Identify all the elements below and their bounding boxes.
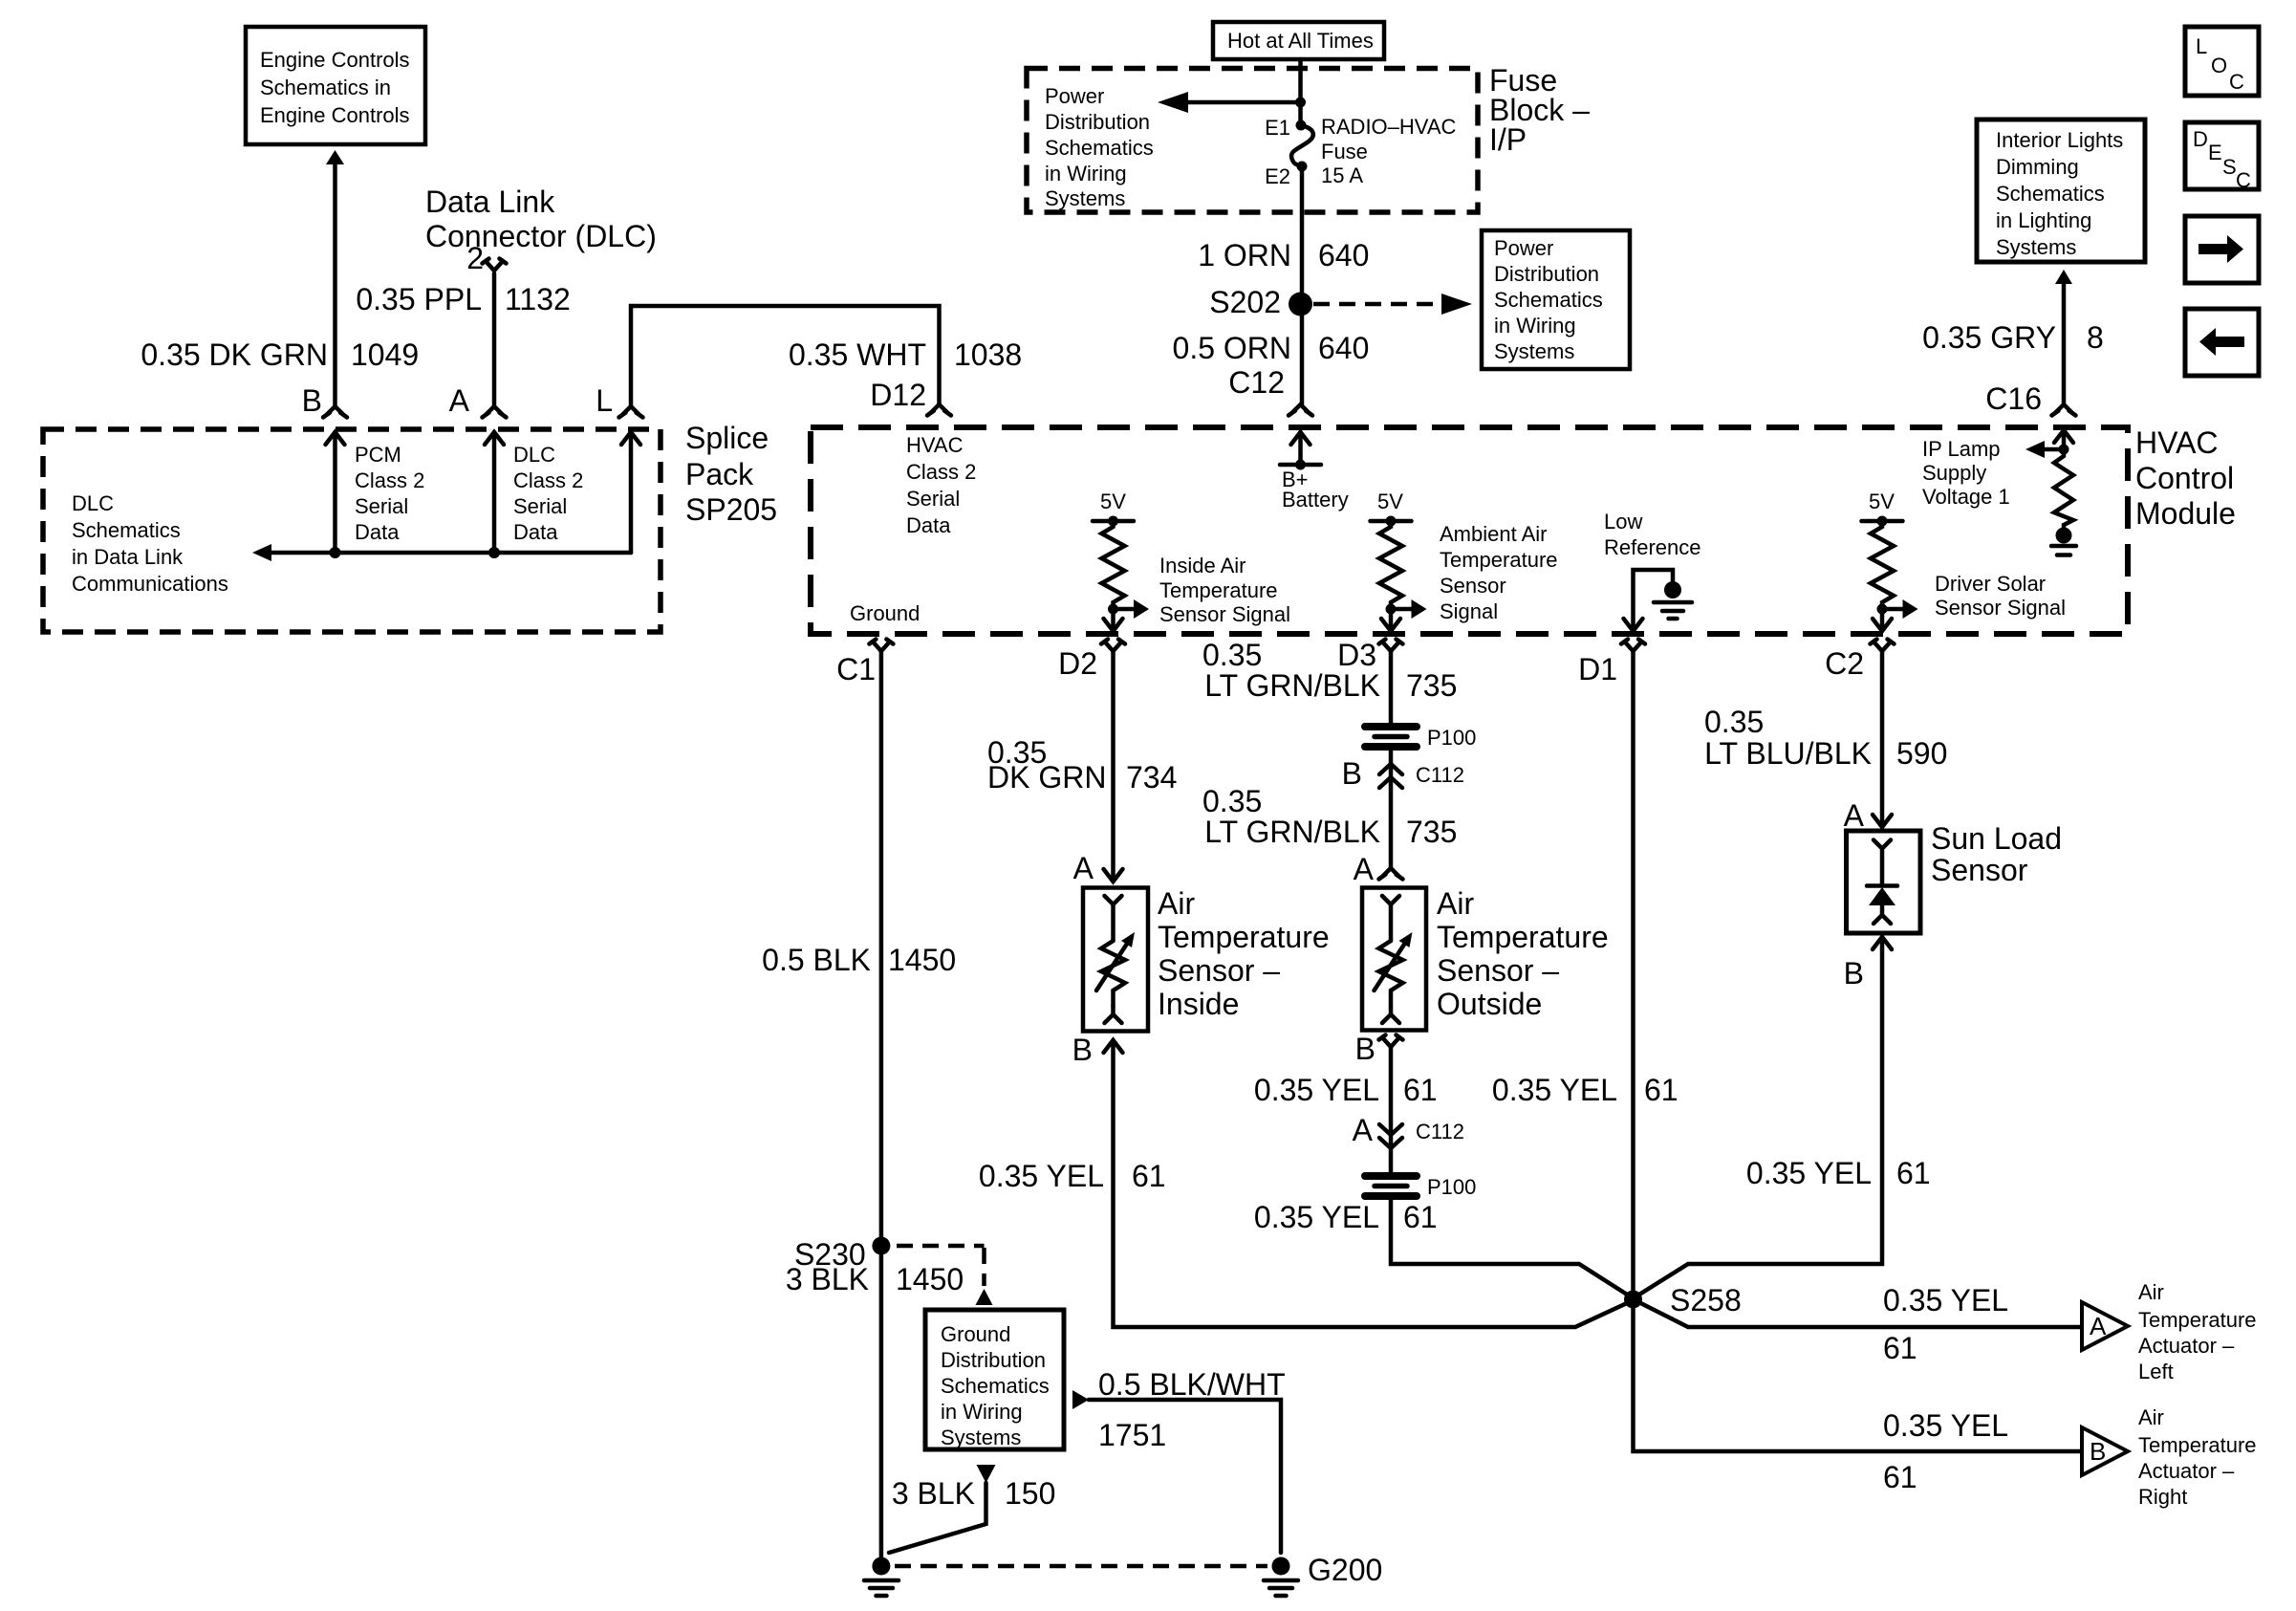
- wire 0.35 GRY 8: [2062, 284, 2067, 404]
- internal wire (outside sensor): [1389, 904, 1394, 941]
- grommet P100 (upper): [1365, 726, 1476, 750]
- svg-text:C: C: [2229, 70, 2244, 94]
- 5V supply for driver solar sensor: [1862, 490, 1903, 527]
- wire 0.35 YEL 61 from sun load to S258: [1634, 937, 1883, 1298]
- svg-text:A: A: [1073, 851, 1094, 885]
- wire 0.35 YEL 61 below outside sensor: [1389, 1047, 1394, 1175]
- svg-text:C112: C112: [1416, 763, 1464, 787]
- box: Hot at All Times: [1213, 22, 1384, 59]
- wire B to bus: [333, 432, 337, 553]
- pin A of sun load sensor: [1844, 798, 1892, 833]
- svg-text:Distribution: Distribution: [941, 1348, 1046, 1372]
- svg-text:Sensor: Sensor: [1440, 574, 1506, 598]
- arrow up inside splice pack at L: [621, 432, 640, 445]
- photodiode (sun load): [1867, 886, 1897, 916]
- internal wire (inside sensor): [1111, 904, 1116, 941]
- svg-text:1132: 1132: [505, 282, 571, 316]
- wire 0.35 WHT 1038 from L to D12: [631, 306, 940, 406]
- svg-text:Class 2: Class 2: [906, 460, 976, 484]
- svg-text:Hot at All Times: Hot at All Times: [1227, 29, 1374, 53]
- pin D1 of HVAC control module: [1578, 640, 1645, 687]
- label Air Temperature Actuator - Right: [2138, 1405, 2257, 1509]
- svg-text:B: B: [1844, 956, 1864, 991]
- svg-text:61: 61: [1883, 1331, 1917, 1365]
- svg-text:5V: 5V: [1869, 490, 1895, 513]
- junction node on feed wire: [1295, 98, 1306, 108]
- svg-text:in Wiring: in Wiring: [1494, 314, 1576, 337]
- svg-text:150: 150: [1005, 1476, 1055, 1511]
- svg-text:Reference: Reference: [1604, 535, 1701, 559]
- svg-text:Class 2: Class 2: [513, 468, 583, 492]
- label Air Temperature Actuator - Left: [2138, 1280, 2257, 1383]
- dashed ground bus to G200: [895, 1564, 1267, 1569]
- svg-text:Sensor –: Sensor –: [1437, 953, 1559, 988]
- svg-text:A: A: [1844, 798, 1865, 833]
- arrowhead at start of 0.5 BLK/WHT wire: [1072, 1390, 1089, 1409]
- svg-text:D3: D3: [1337, 638, 1376, 672]
- wire 3 BLK 1450 from S230 to ground: [879, 1254, 884, 1557]
- svg-text:0.35 PPL: 0.35 PPL: [356, 282, 482, 316]
- svg-text:Power: Power: [1045, 84, 1104, 108]
- arrow down at D1 inside module: [1624, 619, 1643, 631]
- label 0.35 LT GRN/BLK 735 (upper): [1202, 638, 1457, 703]
- svg-text:15 A: 15 A: [1321, 163, 1363, 187]
- connector C112 pin B: [1342, 756, 1464, 791]
- svg-text:L: L: [596, 383, 613, 418]
- pin C2 of HVAC control module: [1825, 640, 1894, 682]
- svg-text:1450: 1450: [896, 1262, 964, 1296]
- arrow down below Ground Distribution box: [977, 1465, 996, 1483]
- svg-text:Temperature: Temperature: [1437, 920, 1609, 954]
- bus wire inside splice pack: [270, 551, 631, 555]
- variable resistor (inside sensor): [1096, 932, 1135, 1006]
- svg-text:Distribution: Distribution: [1045, 110, 1150, 134]
- label 0.35 LT GRN/BLK 735 (lower): [1202, 784, 1457, 849]
- svg-text:B: B: [2090, 1437, 2106, 1466]
- right arrow legend box: [2185, 216, 2259, 283]
- variable resistor (outside sensor): [1375, 932, 1413, 1006]
- internal pin bottom (sun load): [1874, 915, 1891, 924]
- wire 0.5 BLK/WHT 1751: [1089, 1400, 1281, 1553]
- wire 0.35 PPL 1132: [492, 273, 497, 406]
- label 0.35 PPL 1132: [356, 282, 570, 316]
- svg-text:Outside: Outside: [1437, 987, 1542, 1021]
- internal ground at low reference: [1654, 581, 1692, 619]
- resistor ambient air temp pull-up: [1379, 521, 1402, 609]
- internal pin bottom (outside sensor): [1382, 1006, 1399, 1023]
- svg-text:Ground: Ground: [941, 1322, 1010, 1346]
- svg-text:Connector (DLC): Connector (DLC): [425, 219, 657, 253]
- ground symbol left: [864, 1557, 899, 1597]
- svg-text:P100: P100: [1427, 726, 1476, 750]
- svg-text:2: 2: [466, 241, 484, 275]
- grommet P100 (lower): [1365, 1175, 1476, 1199]
- wire A to bus: [492, 432, 497, 553]
- label HVAC Class 2 Serial Data: [906, 433, 976, 537]
- pin E1: [1265, 116, 1306, 140]
- label 1 ORN 640: [1198, 238, 1369, 272]
- svg-text:1450: 1450: [888, 943, 956, 977]
- svg-text:A: A: [1354, 852, 1375, 886]
- svg-text:Battery: Battery: [1282, 488, 1349, 512]
- svg-text:B: B: [1072, 1033, 1093, 1067]
- internal ground at IP lamp resistor: [2051, 528, 2076, 555]
- box: air temperature sensor - outside: [1362, 888, 1426, 1031]
- svg-text:G200: G200: [1308, 1553, 1382, 1587]
- label 0.35 YEL 61 (outside sensor B): [1254, 1073, 1438, 1107]
- arrowhead left on bus: [252, 544, 271, 561]
- svg-text:Module: Module: [2135, 496, 2236, 531]
- svg-text:Engine Controls: Engine Controls: [260, 48, 410, 72]
- wire 0.35 DK GRN 1049: [333, 164, 337, 406]
- splice S202: [1209, 285, 1312, 319]
- wire below grommet: [1389, 750, 1394, 868]
- svg-text:Data: Data: [355, 520, 400, 544]
- wire from Hot at All Times to fuse: [1298, 59, 1303, 125]
- pin A of splice pack: [449, 383, 507, 418]
- svg-text:0.35 DK GRN: 0.35 DK GRN: [141, 337, 328, 372]
- label 0.35 WHT 1038: [789, 337, 1022, 372]
- svg-text:1 ORN: 1 ORN: [1198, 238, 1291, 272]
- pin 2 of DLC: [466, 241, 506, 275]
- connector triangle B to air temperature actuator right: [2082, 1427, 2128, 1475]
- wire 0.35 DK GRN 734: [1111, 651, 1116, 882]
- svg-text:Distribution: Distribution: [1494, 262, 1599, 286]
- svg-text:Sensor: Sensor: [1931, 853, 2028, 887]
- svg-text:0.35 GRY: 0.35 GRY: [1922, 320, 2056, 355]
- wire 0.35 YEL 61 from D1 through S258 to actuator B: [1634, 651, 2083, 1451]
- wire C12 to B+ bar: [1298, 432, 1303, 465]
- svg-text:Power: Power: [1494, 236, 1553, 260]
- svg-text:Actuator –: Actuator –: [2138, 1334, 2235, 1358]
- svg-text:Systems: Systems: [1996, 235, 2076, 259]
- svg-text:Temperature: Temperature: [1159, 578, 1278, 602]
- svg-text:5V: 5V: [1377, 490, 1403, 513]
- box: Interior Lights Dimming Schematics in Lighting Systems: [1977, 120, 2145, 262]
- HVAC control module dashed box: [811, 427, 2128, 634]
- svg-text:LT BLU/BLK: LT BLU/BLK: [1704, 736, 1872, 771]
- pin C1 of HVAC control module: [836, 640, 893, 687]
- svg-text:A: A: [449, 383, 470, 418]
- svg-text:in Wiring: in Wiring: [941, 1400, 1023, 1424]
- svg-text:S202: S202: [1209, 285, 1281, 319]
- branch arrow Ambient Air Temperature Sensor Signal: [1391, 599, 1427, 619]
- ground G200: [1264, 1553, 1382, 1596]
- svg-text:Right: Right: [2138, 1485, 2187, 1509]
- svg-text:Temperature: Temperature: [2138, 1308, 2257, 1332]
- svg-text:734: 734: [1126, 760, 1177, 795]
- fuse RADIO-HVAC 15 A: [1291, 125, 1313, 166]
- svg-text:Inside: Inside: [1158, 987, 1239, 1021]
- svg-text:SP205: SP205: [685, 492, 777, 527]
- svg-text:0.35 YEL: 0.35 YEL: [979, 1159, 1104, 1193]
- svg-text:Sensor Signal: Sensor Signal: [1935, 596, 2066, 620]
- svg-text:C16: C16: [1985, 381, 2042, 416]
- svg-text:Air: Air: [2138, 1280, 2164, 1304]
- svg-text:Class 2: Class 2: [355, 468, 424, 492]
- svg-text:0.35: 0.35: [1202, 638, 1262, 672]
- svg-text:D1: D1: [1578, 652, 1617, 686]
- svg-text:B: B: [1342, 756, 1362, 791]
- svg-text:in Lighting: in Lighting: [1996, 208, 2091, 232]
- pin C12 of HVAC control module: [1228, 365, 1312, 416]
- label Splice Pack SP205: [685, 421, 777, 527]
- box: air temperature sensor - inside: [1083, 888, 1148, 1032]
- branch arrow to IP Lamp label: [2025, 441, 2064, 458]
- pin E2: [1265, 162, 1307, 189]
- svg-text:0.35 YEL: 0.35 YEL: [1746, 1156, 1872, 1190]
- connector triangle A to air temperature actuator left: [2082, 1302, 2128, 1350]
- label Driver Solar Sensor Signal: [1935, 572, 2066, 620]
- node on C16 wire: [2059, 445, 2069, 455]
- DESC legend box: [2185, 122, 2259, 192]
- arrow up from Ground Distribution box: [976, 1289, 993, 1305]
- box: Power Distribution Schematics in Wiring Systems: [1482, 230, 1630, 369]
- svg-text:Driver Solar: Driver Solar: [1935, 572, 2046, 596]
- label 0.35 YEL 61 (inside sensor): [979, 1159, 1166, 1193]
- box: Engine Controls reference: [246, 27, 425, 144]
- svg-text:0.35 YEL: 0.35 YEL: [1883, 1283, 2008, 1317]
- wire 0.35 YEL 61 from inside sensor to S258: [1114, 1040, 1634, 1327]
- resistor inside air temp pull-up: [1102, 521, 1125, 609]
- label 0.35 YEL 61 (actuator B): [1883, 1408, 2008, 1494]
- 5V supply for ambient air temp sensor: [1371, 490, 1412, 527]
- svg-text:0.35 YEL: 0.35 YEL: [1254, 1200, 1379, 1234]
- pin C16 of HVAC control module: [1985, 381, 2075, 416]
- svg-text:Ambient Air: Ambient Air: [1440, 522, 1548, 546]
- svg-text:0.35 YEL: 0.35 YEL: [1883, 1408, 2008, 1443]
- svg-text:590: 590: [1896, 736, 1947, 771]
- label DLC Class 2 Serial Data: [513, 443, 583, 544]
- wire to D2 pin: [1111, 609, 1116, 631]
- pin B of outside air temp sensor: [1355, 1032, 1403, 1066]
- branch arrow Inside Air Temperature Sensor Signal: [1114, 599, 1150, 619]
- svg-text:Dimming: Dimming: [1996, 155, 2079, 179]
- pin A of inside air temp sensor: [1073, 851, 1123, 885]
- svg-text:B: B: [302, 383, 322, 418]
- svg-text:O: O: [2211, 54, 2227, 77]
- svg-text:Air: Air: [1437, 886, 1474, 921]
- svg-text:Engine Controls: Engine Controls: [260, 103, 410, 127]
- svg-text:61: 61: [1644, 1073, 1679, 1107]
- svg-text:Data: Data: [906, 513, 951, 537]
- box: sun load sensor: [1847, 831, 1921, 933]
- arrowhead right to Power Distribution box: [1441, 294, 1472, 315]
- LOC legend box: [2185, 27, 2259, 96]
- svg-text:61: 61: [1403, 1073, 1438, 1107]
- svg-text:IP Lamp: IP Lamp: [1922, 437, 2001, 461]
- svg-text:0.35 YEL: 0.35 YEL: [1492, 1073, 1617, 1107]
- svg-text:B: B: [1355, 1032, 1375, 1066]
- svg-text:61: 61: [1883, 1460, 1917, 1494]
- svg-text:0.35 WHT: 0.35 WHT: [789, 337, 926, 372]
- label PCM Class 2 Serial Data: [355, 443, 424, 544]
- svg-text:Splice: Splice: [685, 421, 769, 455]
- svg-text:Control: Control: [2135, 461, 2234, 495]
- svg-text:Data Link: Data Link: [425, 185, 555, 219]
- svg-text:8: 8: [2087, 320, 2104, 355]
- svg-text:E: E: [2208, 141, 2222, 164]
- svg-text:1751: 1751: [1098, 1418, 1166, 1452]
- internal wire (sun load): [1880, 849, 1885, 885]
- wire 0.35 LT BLU/BLK 590: [1880, 651, 1885, 827]
- svg-text:Communications: Communications: [72, 572, 228, 596]
- svg-text:3 BLK: 3 BLK: [786, 1262, 869, 1296]
- label Data Link Connector (DLC): [425, 185, 657, 253]
- arrow down at D2 inside module: [1104, 619, 1123, 631]
- label IP Lamp Supply Voltage 1: [1922, 437, 2010, 509]
- 5V supply for inside air temp sensor: [1093, 490, 1134, 527]
- svg-text:Fuse: Fuse: [1321, 140, 1368, 163]
- label Air Temperature Sensor - Outside: [1437, 886, 1609, 1021]
- splice S230: [794, 1237, 890, 1273]
- svg-text:61: 61: [1896, 1156, 1931, 1190]
- label 0.5 BLK 1450: [762, 943, 956, 977]
- svg-text:640: 640: [1318, 238, 1369, 272]
- svg-text:E2: E2: [1265, 164, 1290, 188]
- svg-text:LT GRN/BLK: LT GRN/BLK: [1204, 815, 1380, 849]
- svg-text:Schematics: Schematics: [941, 1374, 1050, 1398]
- pin A of outside air temp sensor: [1354, 852, 1403, 886]
- svg-text:640: 640: [1318, 331, 1369, 365]
- label 0.35 YEL 61 (D1): [1492, 1073, 1679, 1107]
- node at resistor bottom: [1877, 604, 1888, 615]
- svg-text:DK GRN: DK GRN: [987, 760, 1106, 795]
- svg-text:Temperature: Temperature: [2138, 1433, 2257, 1457]
- junction node at A on bus: [488, 547, 500, 558]
- label Sun Load Sensor: [1931, 821, 2062, 887]
- svg-text:0.35: 0.35: [1704, 705, 1764, 739]
- label Air Temperature Sensor - Inside: [1158, 886, 1330, 1021]
- dashed reference wire from S230: [897, 1246, 985, 1286]
- label 0.5 BLK/WHT 1751: [1098, 1367, 1286, 1452]
- svg-text:0.35 YEL: 0.35 YEL: [1254, 1073, 1379, 1107]
- label Inside Air Temperature Sensor Signal: [1159, 554, 1290, 626]
- svg-text:Voltage 1: Voltage 1: [1922, 485, 2010, 509]
- svg-text:L: L: [2196, 34, 2207, 58]
- junction node at B on bus: [330, 547, 341, 558]
- wire to D3 pin: [1389, 609, 1394, 631]
- resistor IP lamp: [2054, 449, 2073, 528]
- svg-text:Interior Lights: Interior Lights: [1996, 128, 2123, 152]
- svg-text:Temperature: Temperature: [1158, 920, 1330, 954]
- svg-text:1038: 1038: [954, 337, 1022, 372]
- label B+ Battery: [1282, 468, 1349, 512]
- label Low Reference: [1604, 510, 1701, 559]
- svg-text:RADIO–HVAC: RADIO–HVAC: [1321, 115, 1457, 139]
- svg-text:Air: Air: [2138, 1405, 2164, 1429]
- svg-text:Serial: Serial: [355, 494, 408, 518]
- svg-text:Schematics: Schematics: [1996, 182, 2105, 206]
- svg-text:in Wiring: in Wiring: [1045, 162, 1127, 185]
- label HVAC Control Module: [2135, 425, 2236, 531]
- svg-text:S: S: [2222, 155, 2237, 179]
- svg-text:5V: 5V: [1100, 490, 1126, 513]
- svg-text:Schematics: Schematics: [72, 518, 181, 542]
- pin L of splice pack: [596, 383, 642, 418]
- svg-text:HVAC: HVAC: [2135, 425, 2219, 460]
- node at resistor bottom: [1108, 604, 1118, 615]
- svg-text:Left: Left: [2138, 1360, 2174, 1383]
- svg-text:Temperature: Temperature: [1440, 548, 1558, 572]
- splice S258: [1624, 1283, 1742, 1317]
- svg-text:Inside Air: Inside Air: [1159, 554, 1246, 577]
- svg-text:Actuator –: Actuator –: [2138, 1459, 2235, 1483]
- svg-text:Schematics: Schematics: [1045, 136, 1154, 160]
- svg-text:DLC: DLC: [513, 443, 555, 467]
- splice pack SP205 dashed box: [43, 429, 661, 632]
- svg-text:1049: 1049: [351, 337, 419, 372]
- svg-text:A: A: [2090, 1312, 2107, 1340]
- label 0.35 YEL 61 (sun load): [1746, 1156, 1931, 1190]
- pin B of sun load sensor: [1844, 937, 1892, 991]
- pin B of inside air temp sensor: [1072, 1033, 1123, 1067]
- svg-text:Data: Data: [513, 520, 558, 544]
- svg-text:in Data Link: in Data Link: [72, 545, 184, 569]
- pin D3 of HVAC control module: [1337, 638, 1402, 672]
- dashed reference wire from S202: [1313, 302, 1440, 307]
- low reference wire to internal ground: [1634, 570, 1674, 631]
- wire to C2 pin: [1880, 609, 1885, 631]
- svg-text:Sensor Signal: Sensor Signal: [1159, 602, 1290, 626]
- svg-text:C112: C112: [1416, 1120, 1464, 1143]
- pin D2 of HVAC control module: [1058, 640, 1125, 682]
- svg-text:PCM: PCM: [355, 443, 401, 467]
- label 0.35 YEL 61 (below lower P100): [1254, 1200, 1438, 1234]
- svg-text:735: 735: [1406, 815, 1457, 849]
- svg-text:E1: E1: [1265, 116, 1290, 140]
- svg-text:P100: P100: [1427, 1175, 1476, 1199]
- arrow up inside module at C12: [1291, 432, 1310, 445]
- fuse block I/P dashed box: [1027, 69, 1478, 213]
- svg-text:0.5 BLK/WHT: 0.5 BLK/WHT: [1098, 1367, 1286, 1402]
- svg-text:Supply: Supply: [1922, 461, 1986, 485]
- arrowhead left: [1158, 92, 1188, 113]
- wire C16 internal: [2062, 430, 2067, 449]
- svg-text:3 BLK: 3 BLK: [892, 1476, 975, 1511]
- svg-text:0.35: 0.35: [1202, 784, 1262, 818]
- svg-text:Systems: Systems: [1494, 339, 1574, 363]
- label 0.5 ORN 640: [1173, 331, 1370, 365]
- svg-text:I/P: I/P: [1489, 122, 1527, 157]
- svg-text:61: 61: [1403, 1200, 1438, 1234]
- wire 0.35 YEL 61 to actuator A: [1634, 1299, 2083, 1327]
- pin D12 of HVAC control module: [870, 378, 951, 416]
- svg-text:D2: D2: [1058, 646, 1097, 681]
- svg-text:Low: Low: [1604, 510, 1642, 533]
- arrow up inside splice pack at A: [485, 432, 504, 445]
- box: Ground Distribution Schematics in Wiring Systems: [925, 1310, 1064, 1449]
- node at resistor bottom: [1386, 604, 1397, 615]
- branch arrow Driver Solar Sensor Signal: [1882, 599, 1918, 619]
- label 3 BLK 150: [892, 1476, 1056, 1511]
- label RADIO-HVAC Fuse 15 A: [1321, 115, 1457, 187]
- svg-text:Signal: Signal: [1440, 599, 1498, 623]
- node on B+ bar: [1295, 460, 1306, 470]
- svg-text:0.5 ORN: 0.5 ORN: [1173, 331, 1291, 365]
- wire L to bus: [629, 432, 634, 553]
- svg-text:Ground: Ground: [850, 601, 920, 625]
- svg-text:DLC: DLC: [72, 491, 114, 515]
- svg-text:C: C: [2236, 168, 2251, 192]
- svg-text:Schematics in: Schematics in: [260, 76, 391, 99]
- svg-text:D: D: [2193, 127, 2208, 151]
- wire 3 BLK 150: [889, 1483, 986, 1553]
- connector C112 pin A: [1353, 1113, 1464, 1148]
- label 0.35 LT BLU/BLK 590: [1704, 705, 1947, 771]
- svg-text:Sensor –: Sensor –: [1158, 953, 1280, 988]
- svg-text:D12: D12: [870, 378, 926, 412]
